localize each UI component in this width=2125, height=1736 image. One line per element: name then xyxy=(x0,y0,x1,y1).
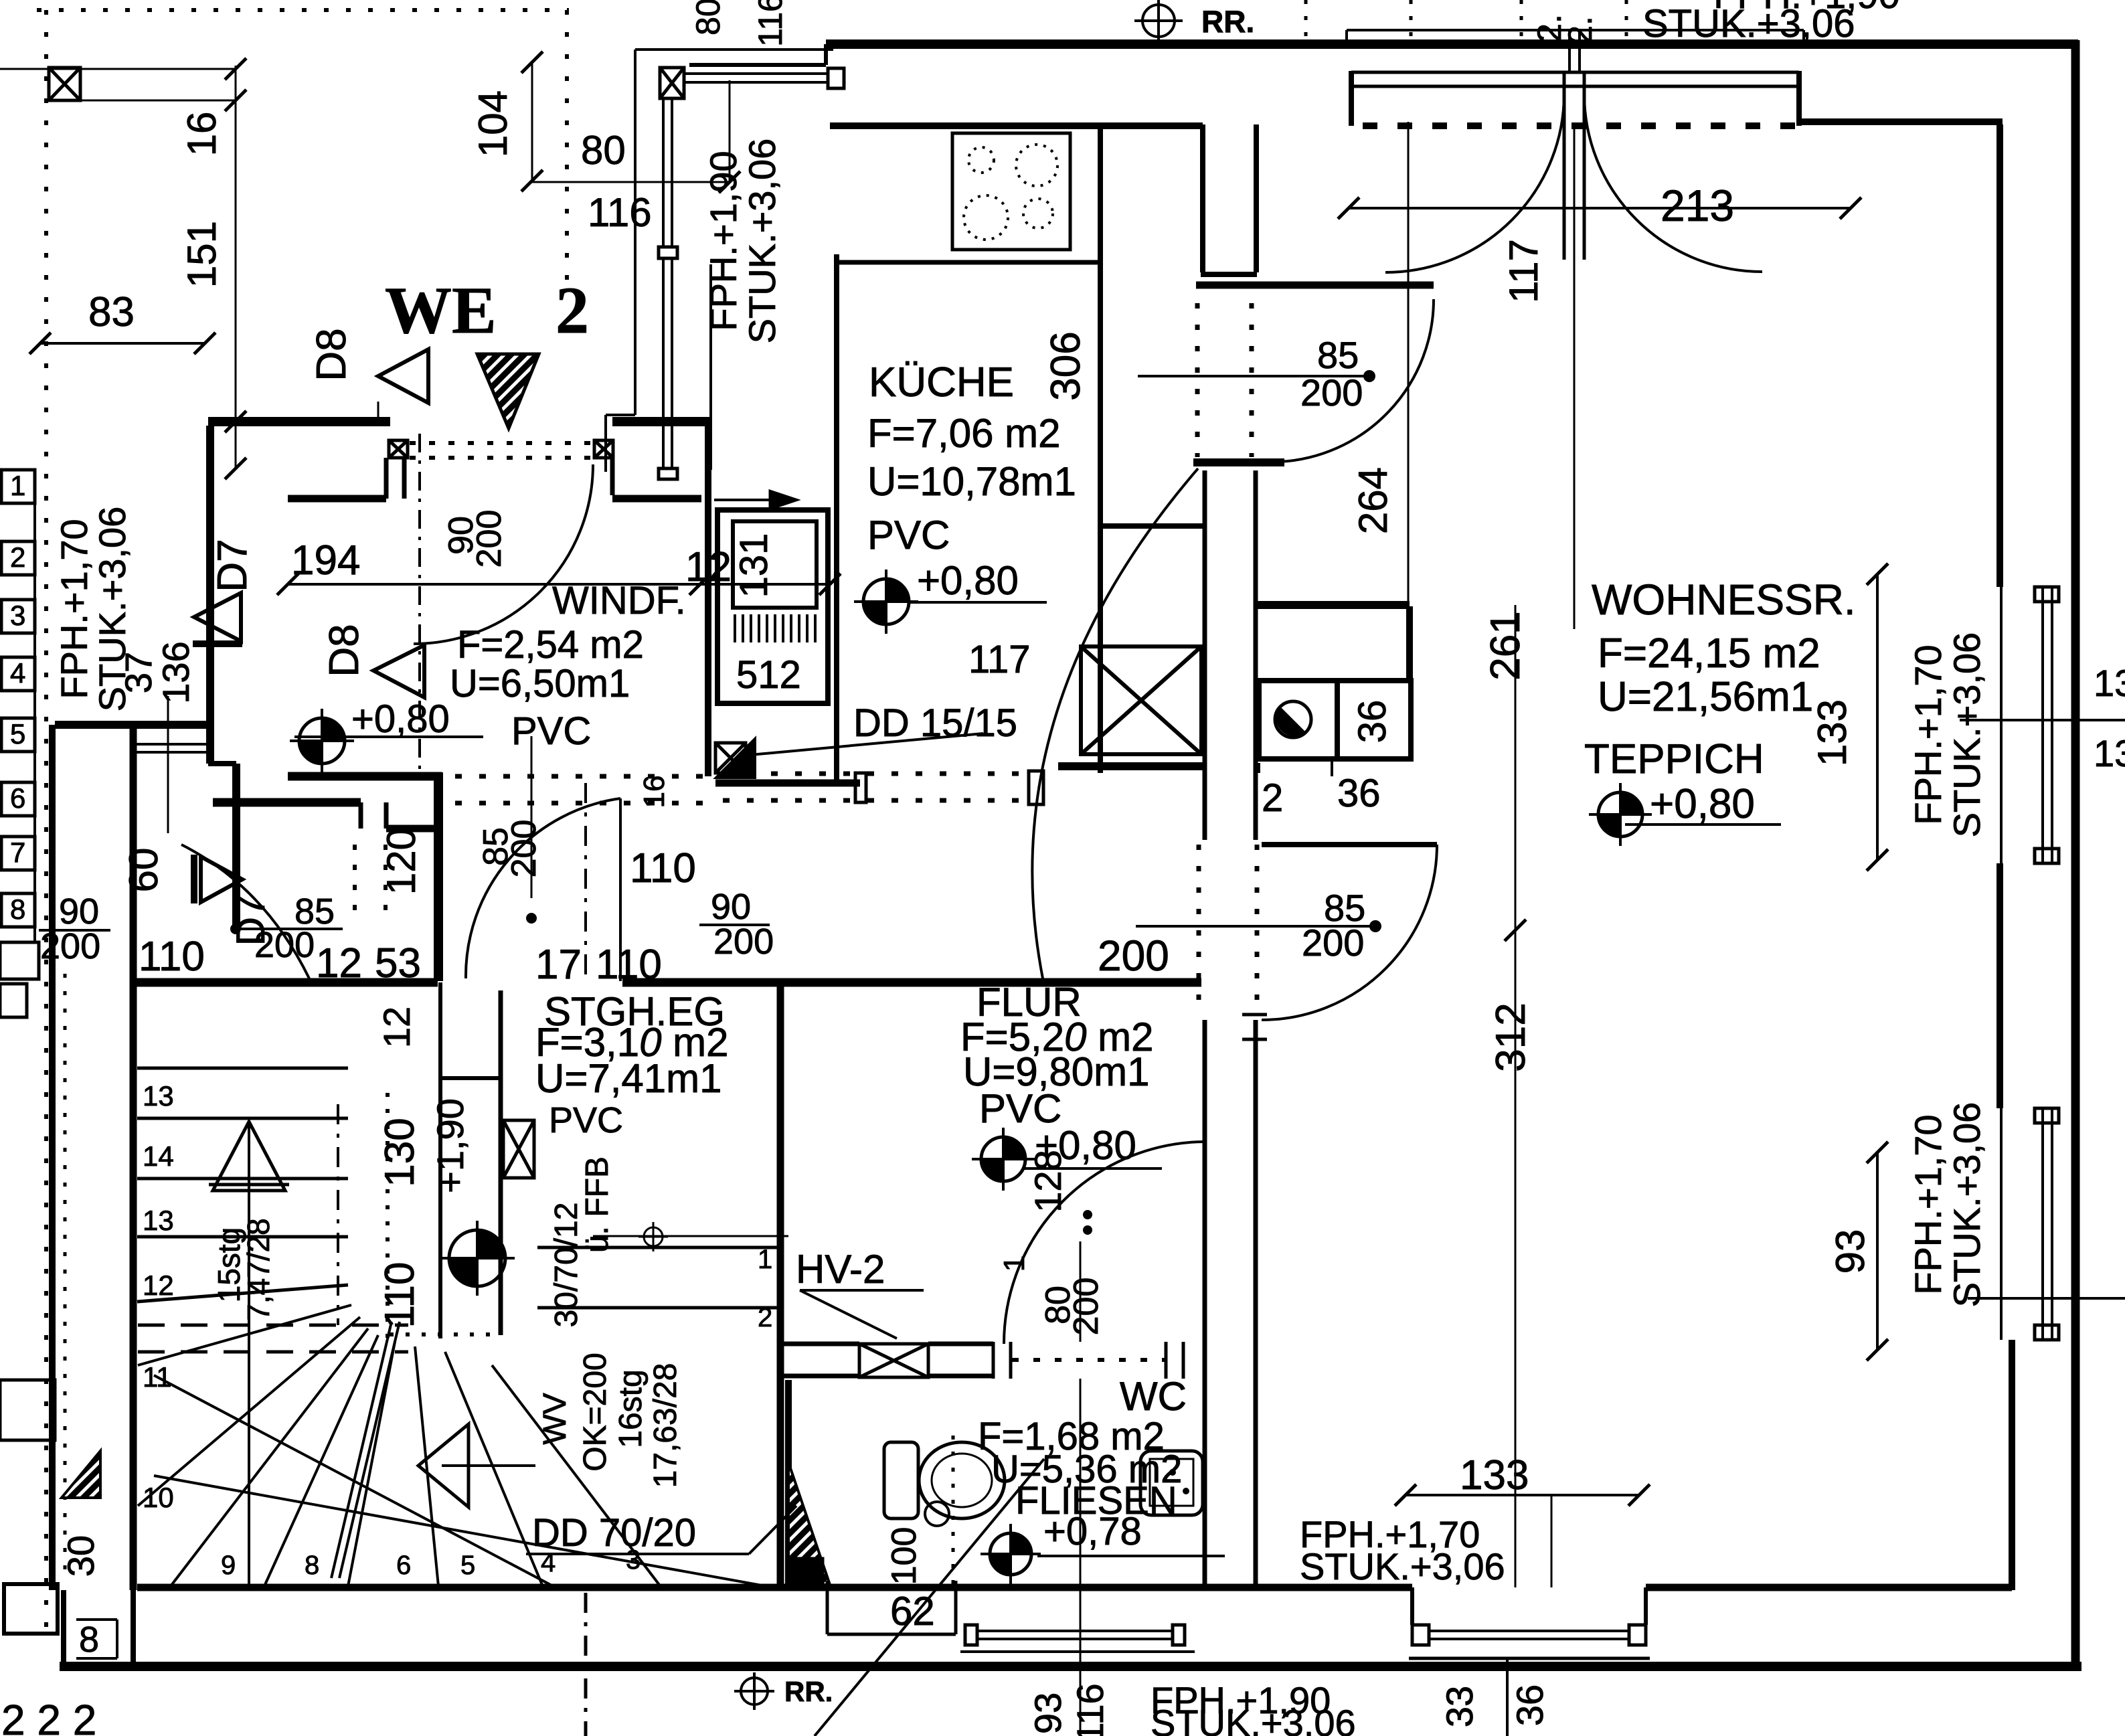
svg-text:+0,80: +0,80 xyxy=(351,697,450,741)
chimney flue circle half filled xyxy=(1275,701,1311,737)
dashed opening kitchen-hall left xyxy=(1195,303,1200,457)
svg-text:5: 5 xyxy=(10,718,25,750)
south wall inner face east xyxy=(1646,1584,2012,1591)
corridor door leaf xyxy=(619,798,622,981)
svg-text:1: 1 xyxy=(10,470,25,501)
svg-text:8: 8 xyxy=(79,1620,99,1660)
svg-text:130: 130 xyxy=(377,1118,423,1187)
svg-text:13: 13 xyxy=(143,1080,174,1112)
svg-text:+0,78: +0,78 xyxy=(1043,1510,1142,1553)
east wall inner face mid xyxy=(1996,863,2003,1108)
svg-text:+1,90: +1,90 xyxy=(429,1098,471,1193)
dim branch line 16 bottom xyxy=(81,100,236,102)
east wall inner face lower xyxy=(2009,1340,2015,1590)
svg-text:9: 9 xyxy=(221,1551,236,1580)
flur south wall b xyxy=(928,1342,993,1347)
svg-text:131: 131 xyxy=(732,533,776,598)
section line mid xyxy=(584,783,587,977)
svg-text:13: 13 xyxy=(2094,732,2125,774)
sw corner box xyxy=(4,1584,58,1634)
entry door threshold dotted b xyxy=(410,456,593,460)
svg-text:F=24,15 m2: F=24,15 m2 xyxy=(1598,630,1820,677)
hall north wall xyxy=(1196,282,1434,289)
dashed opening corridor north lower xyxy=(455,801,703,806)
svg-text:36: 36 xyxy=(1509,1684,1551,1726)
north wall west segment xyxy=(689,63,826,67)
D7 bar upper xyxy=(193,640,242,647)
svg-text:U=21,56m1: U=21,56m1 xyxy=(1598,674,1813,720)
dotted boundary upper-left vertical xyxy=(565,10,569,281)
svg-text:STUK.+3,06: STUK.+3,06 xyxy=(1946,1102,1988,1308)
stair block west wall top xyxy=(55,721,213,729)
sloped tread line xyxy=(137,1285,348,1302)
svg-text:136: 136 xyxy=(155,641,197,703)
east window lower inner sill xyxy=(2000,1108,2003,1340)
svg-text:13: 13 xyxy=(2094,662,2125,704)
axis box 8 xyxy=(1,893,35,927)
svg-text:62: 62 xyxy=(890,1589,935,1634)
svg-text:14: 14 xyxy=(143,1140,174,1172)
pier east line xyxy=(1254,124,1259,272)
shaft x-box xyxy=(1081,646,1201,754)
wohnessr west wall upper left line xyxy=(1203,470,1207,840)
extension line 33/36 xyxy=(1506,1660,1509,1736)
dashed opening kitchen south upper xyxy=(723,772,1031,776)
vestibule east wall xyxy=(705,426,711,776)
svg-text:WC: WC xyxy=(1120,1374,1187,1419)
D8 open triangle lower xyxy=(373,645,424,697)
wohnessr west wall lower left line xyxy=(1203,1020,1207,1587)
axis box 5 xyxy=(1,718,35,752)
door axis dash-dot line xyxy=(418,434,421,773)
svg-text:6: 6 xyxy=(396,1551,411,1580)
svg-text:116: 116 xyxy=(588,190,652,235)
svg-text:36: 36 xyxy=(1337,772,1381,815)
svg-text:+0,80: +0,80 xyxy=(917,558,1019,603)
long leader diagonal wc xyxy=(815,1459,1044,1736)
leader to window right lower xyxy=(1968,1297,2125,1300)
door arc top hall xyxy=(1280,299,1434,462)
svg-text:ü. FFB: ü. FFB xyxy=(580,1156,615,1253)
svg-text:16: 16 xyxy=(179,112,224,157)
svg-text:100: 100 xyxy=(885,1527,924,1585)
svg-text:110: 110 xyxy=(139,934,205,980)
west wall inner line / stair west wall xyxy=(130,725,137,1590)
stair landing rect left xyxy=(438,982,442,1338)
svg-text:30: 30 xyxy=(60,1535,102,1577)
DD70/20 leader xyxy=(749,1506,796,1554)
west wall inner face below window xyxy=(709,264,712,470)
svg-text:200: 200 xyxy=(40,926,100,966)
svg-text:F=7,06 m2: F=7,06 m2 xyxy=(867,411,1061,456)
svg-text:PVC: PVC xyxy=(511,709,591,753)
french door right jamb xyxy=(1796,71,1802,126)
bay window south xyxy=(1429,1630,1629,1632)
svg-text:17: 17 xyxy=(535,942,582,988)
svg-text:110: 110 xyxy=(377,1262,423,1328)
door jamb step c xyxy=(610,458,615,495)
heater box 131 xyxy=(733,521,817,608)
vestibule south wall C xyxy=(386,825,438,833)
hall wall piece below arc xyxy=(1193,458,1284,466)
dashed opening kitchen-hall right xyxy=(1250,303,1254,457)
svg-text:STUK.+3,06: STUK.+3,06 xyxy=(1300,1545,1505,1587)
svg-text:80: 80 xyxy=(689,0,727,35)
svg-text:85: 85 xyxy=(1317,334,1359,376)
corridor south wall mid-east xyxy=(622,978,1201,987)
lower flight arrow xyxy=(418,1424,469,1507)
wc level symbol xyxy=(981,1524,1041,1584)
svg-text:1: 1 xyxy=(998,1255,1031,1272)
svg-text:RR.: RR. xyxy=(1201,4,1254,39)
svg-text:133: 133 xyxy=(1460,1452,1529,1498)
svg-text:U=10,78m1: U=10,78m1 xyxy=(867,459,1076,504)
svg-text:90: 90 xyxy=(59,891,99,932)
svg-text:OK=200: OK=200 xyxy=(578,1353,613,1471)
dotted boundary top xyxy=(37,8,569,12)
left top x-box xyxy=(49,68,80,100)
pier west line xyxy=(1200,124,1205,272)
stove xyxy=(952,133,1070,250)
svg-text:2: 2 xyxy=(556,273,589,347)
wc window xyxy=(977,1630,1173,1632)
stair landing rect top xyxy=(440,1076,501,1080)
shaft west line xyxy=(499,990,503,1335)
dotted opening vestibule south a xyxy=(353,845,357,916)
svg-text:2.: 2. xyxy=(1561,16,1599,44)
svg-text:120: 120 xyxy=(379,828,424,895)
flur west wall xyxy=(777,982,784,1587)
vestibule west wall lower xyxy=(232,764,240,930)
heater niche outer box xyxy=(717,510,828,703)
jamb block xyxy=(1029,771,1043,804)
svg-text:151: 151 xyxy=(179,221,224,288)
left edge box mid xyxy=(0,1380,55,1440)
kitchen east wall xyxy=(1098,126,1103,773)
dashed opening line under french door xyxy=(1363,122,1799,129)
svg-text:264: 264 xyxy=(1351,467,1395,534)
svg-text:213: 213 xyxy=(1661,181,1734,230)
svg-text:83: 83 xyxy=(88,289,135,335)
washbasin xyxy=(1140,1451,1203,1515)
svg-text:13: 13 xyxy=(143,1205,174,1236)
D8 triangle leader xyxy=(377,402,379,422)
dim 80 / 116 xyxy=(532,181,730,183)
svg-text:FPH.+1,90: FPH.+1,90 xyxy=(1713,0,1900,17)
svg-text:TEPPICH: TEPPICH xyxy=(1584,736,1764,782)
vestibule north wall inner east xyxy=(612,495,701,503)
sw wall right line xyxy=(131,1590,136,1666)
vestibule south wall step b xyxy=(384,802,389,829)
dotted rect stair opening xyxy=(386,1093,390,1338)
dashed opening kitchen south lower xyxy=(723,798,1031,803)
windf level symbol xyxy=(290,709,354,773)
dotted opening vestibule south b xyxy=(384,845,388,916)
svg-text:4: 4 xyxy=(10,657,25,689)
stair bottom edge xyxy=(137,1585,776,1590)
svg-text:312: 312 xyxy=(1488,1003,1534,1071)
dashed change lines xyxy=(138,1324,408,1327)
long diagonal a xyxy=(154,1375,556,1587)
svg-text:7,47/28: 7,47/28 xyxy=(241,1218,276,1320)
corner pier x-box NW kitchen xyxy=(660,68,684,98)
svg-text:117: 117 xyxy=(1501,239,1546,303)
svg-text:RR.: RR. xyxy=(784,1676,833,1707)
svg-text:17,63/28: 17,63/28 xyxy=(648,1363,683,1488)
vestibule north wall inner west xyxy=(288,495,386,503)
svg-text:116: 116 xyxy=(1069,1683,1111,1736)
dim 85/200 vestibule west door xyxy=(230,924,241,934)
svg-text:261: 261 xyxy=(1482,611,1529,680)
D7 triangle lower xyxy=(201,857,242,902)
svg-text:2: 2 xyxy=(1262,776,1283,820)
svg-text:133: 133 xyxy=(1810,699,1855,766)
entry door jamb box right xyxy=(594,440,613,458)
svg-text:1: 1 xyxy=(758,1245,772,1274)
window glazing top-left (kitchen north window) xyxy=(683,72,828,75)
stair up arrow xyxy=(248,1124,250,1585)
svg-text:200: 200 xyxy=(505,820,543,878)
svg-text:93: 93 xyxy=(1828,1229,1873,1274)
extension line at window xyxy=(729,80,731,182)
svg-text:80: 80 xyxy=(581,128,626,173)
solid black blob wc wall base xyxy=(786,1558,823,1585)
dim 104 xyxy=(531,62,533,181)
dash-dot line stairs xyxy=(337,1104,339,1325)
door jamb top line xyxy=(1242,1013,1267,1017)
chain line 151/16 xyxy=(235,66,237,470)
svg-text:6: 6 xyxy=(10,782,25,814)
svg-text:WE: WE xyxy=(385,273,497,347)
chain line 261/312 xyxy=(1515,605,1517,1587)
dashed opening corridor north upper xyxy=(455,774,703,779)
flur level symbol xyxy=(972,1128,1035,1191)
dotted line lower left a xyxy=(64,974,67,1573)
chimney pier box xyxy=(1259,681,1337,759)
HV x-box xyxy=(859,1344,928,1377)
east exterior wall outer face xyxy=(2071,40,2080,1668)
large door swing arc to corridor xyxy=(1032,468,1198,978)
balcony threshold line xyxy=(1347,29,1804,31)
svg-text:+0,80: +0,80 xyxy=(1650,781,1755,827)
svg-text:12: 12 xyxy=(375,1007,418,1048)
extension line 264 xyxy=(1408,122,1410,612)
svg-text:16: 16 xyxy=(638,776,671,808)
shaft north wall xyxy=(1100,523,1205,529)
east window upper inner sill xyxy=(2000,587,2003,863)
svg-text:STUK.+3,06: STUK.+3,06 xyxy=(1151,1702,1356,1736)
wc west wall xyxy=(785,1380,792,1585)
french door mullion right xyxy=(1578,30,1581,74)
axis box 1 xyxy=(1,470,35,503)
bay window sill xyxy=(1409,1657,1650,1660)
south exterior wall outer face xyxy=(60,1662,2081,1671)
svg-text:200: 200 xyxy=(254,925,315,965)
steep double line xyxy=(331,1322,392,1578)
tread line 1 xyxy=(537,1246,783,1249)
dim branch line 16 top xyxy=(0,68,236,70)
D7 door arc lower xyxy=(181,845,309,978)
hatched wedge west wall xyxy=(62,1451,100,1498)
window end block xyxy=(828,68,844,88)
door jamb step b xyxy=(402,458,407,499)
winder tread lines xyxy=(138,1305,351,1365)
svg-text:117: 117 xyxy=(968,638,1030,681)
dim line 213 xyxy=(1349,207,1851,209)
svg-text:60: 60 xyxy=(121,848,166,893)
svg-text:HV-2: HV-2 xyxy=(796,1247,885,1292)
stair mid-landing level symbol xyxy=(440,1221,515,1296)
axis box 6 xyxy=(1,782,35,816)
x-box stair top xyxy=(503,1120,534,1178)
toilet xyxy=(884,1442,918,1518)
RR symbol bottom xyxy=(741,1678,768,1705)
D7 bar lower xyxy=(191,855,197,903)
stair treads upper flight xyxy=(137,1067,348,1070)
wc door leaf xyxy=(1203,1140,1206,1344)
corridor door arc xyxy=(466,798,620,978)
svg-text:D8: D8 xyxy=(321,624,367,677)
thin outline top of kitchen block xyxy=(635,48,833,51)
svg-text:116: 116 xyxy=(752,0,789,47)
axis box 2 xyxy=(1,541,35,575)
kitchen counter front edge xyxy=(837,260,1101,265)
svg-text:U=6,50m1: U=6,50m1 xyxy=(450,662,630,705)
french door left leaf arc xyxy=(1385,94,1564,272)
french door right leaf xyxy=(1583,74,1586,260)
bay step right xyxy=(1644,1587,1648,1625)
vestibule north wall outer west xyxy=(208,417,390,426)
svg-text:104: 104 xyxy=(471,90,515,157)
svg-text:2: 2 xyxy=(10,541,25,573)
corridor south wall west xyxy=(133,978,438,987)
kitchen south wall xyxy=(715,780,860,787)
french door left jamb xyxy=(1349,71,1354,126)
extension line 133 xyxy=(1551,1495,1553,1587)
south wall inner face west xyxy=(137,1584,1412,1591)
svg-text:90: 90 xyxy=(711,887,751,927)
north wall inner face (kitchen) xyxy=(830,122,1203,129)
svg-text:WOHNESSR.: WOHNESSR. xyxy=(1592,576,1856,624)
svg-text:D7: D7 xyxy=(209,539,256,592)
flur south wall b2 xyxy=(928,1374,993,1379)
west window glazing (kitchen west wall) xyxy=(662,97,665,247)
thin outline left of kitchen block xyxy=(634,50,636,415)
west wall outer line xyxy=(49,725,56,1590)
leader to window right xyxy=(1960,719,2125,721)
axis box 4 xyxy=(1,657,35,691)
tread line 2 xyxy=(537,1306,783,1310)
svg-text:5: 5 xyxy=(460,1551,475,1580)
svg-text:8: 8 xyxy=(10,893,25,925)
svg-text:7: 7 xyxy=(10,837,25,868)
wohnessr west wall upper right line xyxy=(1254,470,1258,840)
vestibule west wall jog xyxy=(208,761,236,766)
DD 15/15 leader xyxy=(743,733,983,756)
HV-2 leader a xyxy=(800,1289,924,1292)
kitchen level symbol xyxy=(854,570,918,634)
svg-text:2 2 2: 2 2 2 xyxy=(1,1696,96,1736)
axis box 3 xyxy=(1,600,35,633)
wohnessr level symbol xyxy=(1589,783,1652,846)
svg-text:200: 200 xyxy=(470,510,509,568)
long diagonal b xyxy=(154,1476,773,1587)
svg-text:FPH.+1,70: FPH.+1,70 xyxy=(53,519,95,699)
D7 triangle upper xyxy=(194,593,241,641)
hatched wedge kitchen south xyxy=(716,739,755,778)
svg-text:8: 8 xyxy=(305,1551,319,1580)
entry door D8 arc xyxy=(414,464,593,644)
vestibule south wall A xyxy=(288,772,442,781)
dotted boundary left xyxy=(44,10,48,1636)
north wall left step xyxy=(824,44,828,65)
vestibule south wall step a xyxy=(359,802,363,829)
section line bottom xyxy=(584,1593,588,1736)
svg-text:36: 36 xyxy=(1351,700,1394,744)
thin outline step xyxy=(606,414,635,416)
svg-text:FPH.+1,90: FPH.+1,90 xyxy=(702,151,744,331)
svg-text:D8: D8 xyxy=(309,328,355,381)
pier box 36 xyxy=(1337,681,1411,759)
thin outline step down xyxy=(604,415,607,472)
svg-text:FPH.+1,70: FPH.+1,70 xyxy=(1907,644,1949,824)
extension line 93/116 xyxy=(1080,1379,1082,1736)
svg-text:37: 37 xyxy=(117,652,159,693)
wohnessr north entry wall xyxy=(1256,601,1410,609)
entry door threshold dotted a xyxy=(410,441,593,445)
flur south wall a xyxy=(784,1342,859,1347)
wc door threshold dotted xyxy=(1012,1358,1166,1362)
axis boxes vertical line xyxy=(33,492,36,944)
svg-text:STUK.+3,06: STUK.+3,06 xyxy=(1946,632,1988,838)
wohnessr door leaf + arc xyxy=(1262,842,1437,847)
left edge small box a xyxy=(0,942,39,979)
svg-text:3: 3 xyxy=(10,600,25,631)
east window lower glazing xyxy=(2041,1108,2044,1340)
svg-text:STUK.+3,06: STUK.+3,06 xyxy=(741,139,783,344)
flur south wall a2 xyxy=(784,1374,859,1379)
HV-2 leader b xyxy=(800,1290,897,1338)
dim 83 xyxy=(40,342,205,345)
sw wall left line xyxy=(61,1590,66,1666)
wc dotted line xyxy=(952,1436,955,1585)
svg-text:200: 200 xyxy=(713,922,774,962)
shaft south wall xyxy=(1058,762,1203,770)
vestibule south wall B xyxy=(213,798,361,807)
svg-text:16stg: 16stg xyxy=(613,1369,649,1448)
french door left leaf xyxy=(1563,74,1566,260)
left edge small box b xyxy=(0,984,27,1017)
dim 133 bay window xyxy=(1406,1494,1639,1496)
french door 213 frame xyxy=(1351,71,1799,74)
corridor-stair divider wall xyxy=(434,772,443,981)
thin line stair right xyxy=(593,1235,788,1237)
door jamb step a xyxy=(384,458,389,499)
north wall inner face (east) xyxy=(1799,118,2003,125)
dim 93 right lower xyxy=(1876,1152,1879,1350)
french door mullion left xyxy=(1568,30,1571,74)
RR symbol top xyxy=(1142,5,1175,37)
extension line 117/261 xyxy=(1574,126,1576,629)
west window lower block xyxy=(659,468,677,479)
vestibule west wall upper xyxy=(206,426,214,764)
dim line 133 right xyxy=(1876,574,1879,860)
svg-text:200: 200 xyxy=(1300,371,1363,414)
svg-text:512: 512 xyxy=(736,653,801,697)
dashed door opening wohnessr right xyxy=(1255,845,1260,1016)
svg-text:2: 2 xyxy=(758,1303,772,1332)
extension line through west window xyxy=(167,696,169,833)
